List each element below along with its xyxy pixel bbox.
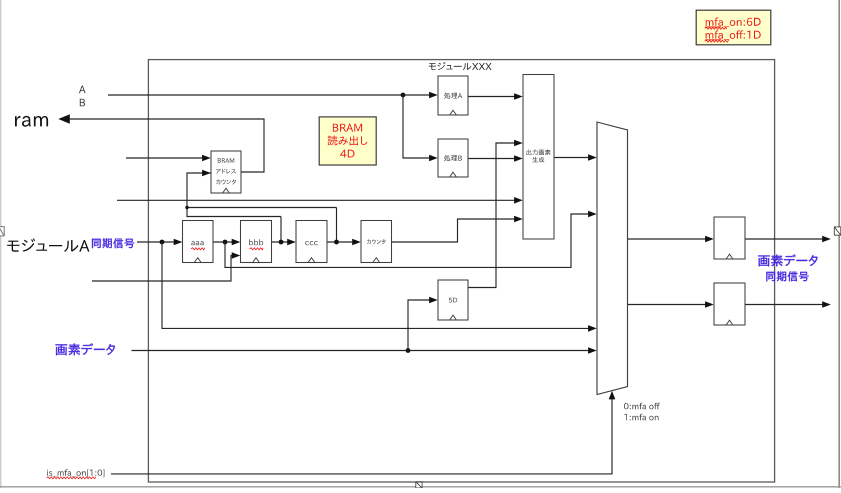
wire feedback bbb riser xyxy=(280,217,282,243)
block aaa xyxy=(183,221,214,263)
wire ccc to カウンタ xyxy=(327,241,353,243)
arrowhead into 5D xyxy=(429,297,438,304)
selection handle right-mid xyxy=(834,227,841,235)
wire 出力画素生成 to mux xyxy=(554,157,589,159)
arrowhead y200 into 出力画素生成 xyxy=(514,197,523,204)
wire 処理A output xyxy=(468,96,515,98)
squiggle under mfa_on xyxy=(705,27,727,29)
text カウンタ xyxy=(216,179,236,184)
wire BRAM input 2 vertical xyxy=(187,173,281,217)
block 5D xyxy=(438,280,468,320)
text ccc xyxy=(305,241,318,245)
arrowhead into mux input1 xyxy=(588,154,597,161)
label 同期信号 (blue) xyxy=(92,238,134,248)
arrowhead into FF1 xyxy=(705,236,714,243)
selection handle left-mid xyxy=(0,227,4,236)
arrowhead sync branch into mux xyxy=(588,325,597,332)
note BRAM 読み出し 4D xyxy=(319,117,376,165)
wire BRAM input 1 xyxy=(126,157,203,159)
arrowhead into 処理B xyxy=(429,155,438,162)
block 出力画素生成 xyxy=(523,75,554,240)
module frame モジュールXXX boundary xyxy=(148,60,774,482)
label モジュールA xyxy=(7,238,89,252)
text 5D xyxy=(449,298,457,303)
arrowhead select into mux xyxy=(609,391,616,400)
note text 4D xyxy=(340,150,354,158)
text 処理A xyxy=(444,93,462,99)
wire 同期信号 input xyxy=(137,241,175,243)
note text mfa_on:6D xyxy=(706,18,761,28)
label A xyxy=(79,86,86,94)
text カウンタ label xyxy=(367,239,386,244)
label B xyxy=(80,99,85,107)
arrowhead aaa branch into mux xyxy=(588,211,597,218)
note text 読み出し xyxy=(328,136,368,146)
node ccc output xyxy=(334,240,339,245)
arrowhead lower into bbb xyxy=(232,252,241,259)
wire BRAM カウンタ to ram xyxy=(67,119,265,172)
arrowhead into aaa xyxy=(174,239,183,246)
node sync branch xyxy=(160,240,165,245)
arrowhead カウンタ to 出力画素生成 xyxy=(514,216,523,223)
mux 2to1 xyxy=(597,122,628,395)
arrowhead into BRAM input 2 xyxy=(202,170,211,177)
wire mux out2 xyxy=(628,304,706,306)
wire mux out1 xyxy=(628,238,706,240)
block 処理A xyxy=(438,76,468,115)
wire lower input to bbb xyxy=(92,256,233,282)
wire feedback ccc to BRAM xyxy=(187,207,337,209)
squiggle under mfa_off xyxy=(705,40,729,42)
label 画素データ (blue) xyxy=(56,343,116,355)
wire feedback ccc riser xyxy=(336,208,338,243)
squiggle under is_mfa_on xyxy=(47,477,97,479)
node 画素データ branch xyxy=(406,348,411,353)
canvas right border xyxy=(838,0,840,488)
text BRAM xyxy=(218,158,234,162)
wire branch to 5D xyxy=(408,300,430,351)
node feedback junction xyxy=(185,206,188,209)
block カウンタ xyxy=(361,221,392,263)
text アドレス xyxy=(216,169,236,174)
arrowhead 画素データ into mux xyxy=(588,347,597,354)
node bbb output xyxy=(279,240,284,245)
block FF2 output register xyxy=(714,283,745,325)
note text mfa_off:1D xyxy=(706,30,761,40)
wire sync branch to mux xyxy=(162,242,589,328)
wire A/B input xyxy=(108,94,430,96)
squiggle under bbb xyxy=(250,248,264,250)
wire カウンタ to 出力画素生成 xyxy=(392,219,515,242)
text 処理B xyxy=(444,155,462,161)
wire aaa branch to mux xyxy=(225,214,589,267)
node A/B branch xyxy=(401,93,406,98)
label is_mfa_on[1:0] xyxy=(47,469,104,477)
block FF1 output register xyxy=(714,217,745,259)
squiggle under aaa xyxy=(191,248,205,250)
note mfa_on:6D / mfa_off:1D xyxy=(696,10,771,45)
block 処理B xyxy=(438,139,468,177)
canvas left border xyxy=(0,0,2,488)
underline under mfa xyxy=(705,26,721,28)
arrowhead 処理B to 出力画素生成 xyxy=(514,155,523,162)
wire long input y200 xyxy=(117,199,515,201)
label モジュールXXX xyxy=(429,62,492,70)
text 生成 xyxy=(533,157,545,163)
label ram xyxy=(15,116,48,127)
text 出力画素 xyxy=(526,149,550,155)
wire branch to 処理B xyxy=(403,95,430,158)
arrowhead ram (left) xyxy=(58,114,70,124)
arrowhead into BRAM input 1 xyxy=(202,155,211,162)
underline under mfa 2 xyxy=(705,39,721,41)
arrowhead into 処理A xyxy=(429,92,438,99)
arrowhead FF1 out xyxy=(822,236,831,243)
arrowhead into bbb xyxy=(232,239,241,246)
arrowhead into カウンタ xyxy=(352,239,361,246)
label 0:mfa off xyxy=(624,403,660,410)
note text BRAM xyxy=(333,124,362,132)
wire aaa to bbb xyxy=(213,241,233,243)
arrowhead into ccc xyxy=(287,239,296,246)
wire FF1 output xyxy=(745,238,823,240)
label 1:mfa on xyxy=(624,414,658,421)
canvas bottom border xyxy=(0,486,841,488)
selection handle bottom-center xyxy=(416,482,422,488)
wire bbb to ccc xyxy=(272,241,289,243)
wire 画素データ xyxy=(132,350,589,352)
text bbb xyxy=(249,239,263,245)
arrowhead FF2 out xyxy=(822,301,831,308)
wire FF2 output xyxy=(745,304,823,306)
wire 5D output xyxy=(468,143,515,288)
arrowhead into FF2 xyxy=(705,301,714,308)
block ccc xyxy=(296,221,327,263)
label 画素データ right (blue) xyxy=(758,254,818,266)
node aaa output xyxy=(223,240,228,245)
arrowhead 5D to 出力画素生成 xyxy=(514,140,523,147)
wire 処理B output xyxy=(468,158,515,160)
label 同期信号 right (blue) xyxy=(766,271,808,281)
wire is_mfa_on select xyxy=(111,397,612,474)
text aaa xyxy=(191,241,204,245)
block bbb xyxy=(241,221,272,263)
arrowhead 処理A to 出力画素生成 xyxy=(514,93,523,100)
block BRAM アドレス カウンタ xyxy=(211,151,241,193)
